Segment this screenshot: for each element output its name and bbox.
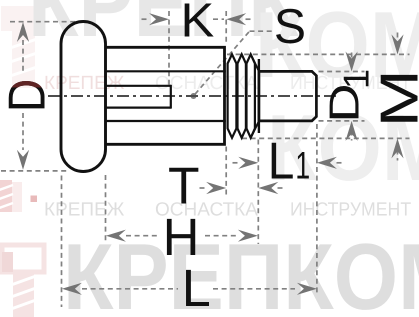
dim line D lower [22,113,24,150]
svg-text:L: L [268,133,295,191]
arrow L1 right (points left) [317,157,337,169]
thread tooth 1 [228,54,237,138]
ext line pin end (L1 right, L right) [316,124,318,296]
arrow D up [17,22,29,42]
dim line M tails [397,33,399,44]
centerline [48,95,336,97]
svg-text:K: K [181,0,215,48]
ext line D1 top [319,71,365,73]
label L1 [268,133,310,191]
body sleeve [105,47,225,144]
thread tooth 3 [247,54,255,138]
svg-text:ИНСТРУМЕНТ: ИНСТРУМЕНТ [290,200,411,221]
dim line D1 tails [351,53,353,63]
arrow D1 bottom (points up) [346,121,358,141]
dim line L1 tails [233,162,241,164]
watermark bolt icon bottom-left [2,245,44,317]
ext line M bottom [242,137,410,139]
ext line K right / body end top [225,11,227,44]
arrow L left (points left) [62,283,82,295]
svg-text:T: T [168,158,200,216]
arrow H right (points right) [238,230,258,242]
dim line L dashes [82,288,178,290]
svg-text:КРЕПЕЖ: КРЕПЕЖ [44,200,125,221]
thread runout cone bottom [252,121,259,136]
leader S horizontal [250,30,273,32]
knob capsule [61,22,106,172]
thread runout vertical [258,59,260,133]
ext line body end bottom (T left) [225,147,227,195]
arrow T right (points left) [258,182,278,194]
svg-text:M: M [371,69,419,127]
slot top [105,85,171,87]
watermark red shank icon left-middle [0,180,22,212]
watermark bolt icon top-left [1,6,41,88]
dim line H dashes [126,235,157,237]
dim line T tails [200,187,208,189]
arrow K right (points left) [226,13,246,25]
inner pin line top [105,70,226,72]
ext line D bottom [1,170,67,172]
arrow K left (points right) [149,13,169,25]
arrow D1 top (points down) [346,52,358,72]
svg-text:S: S [274,0,306,54]
ext line H left [105,175,107,244]
leader S dot [191,93,197,99]
slot bottom [105,106,171,108]
svg-text:L: L [182,259,211,317]
label D1 [321,69,377,123]
arrow H left (points left) [106,230,126,242]
ext line K left [168,11,170,85]
slot right edge [170,85,172,109]
inner pin line bottom [105,120,226,122]
arrow M top (points down) [391,34,403,54]
arrow T left (points right) [206,182,226,194]
ext line D1 bottom [319,120,365,122]
arrow L right (points right) [297,283,317,295]
ext line thread end (L1 left, T right, H right) [257,140,259,245]
ext line M top [227,53,410,55]
ext line L left [61,176,63,308]
dim line K tails [142,18,151,20]
leader S diagonal [195,31,250,94]
thread tooth 2 [238,54,246,138]
ext line D top [10,21,80,23]
arrow M bottom (points up) [391,138,403,158]
black part geometry [61,22,316,172]
dim line D upper [22,40,24,72]
arrow D down [17,150,29,170]
svg-text:1: 1 [295,145,310,188]
thread runout cone top [252,57,259,72]
pin [259,71,317,121]
watermark red square bullet [31,196,38,203]
arrow L1 left (points right) [238,157,258,169]
